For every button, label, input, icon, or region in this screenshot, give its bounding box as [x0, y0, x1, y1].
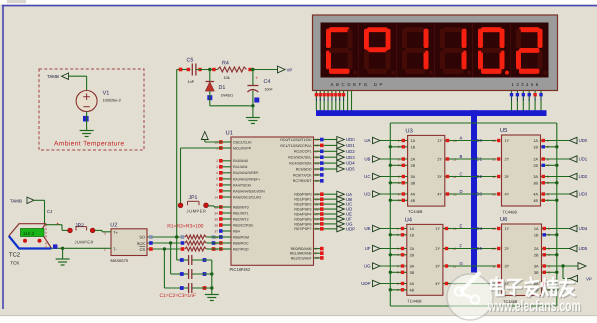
svg-text:2A: 2A — [533, 158, 538, 162]
svg-text:RD1/PSP1: RD1/PSP1 — [294, 198, 311, 202]
node R3 — [163, 247, 166, 250]
svg-text:RE0/RD/AN5: RE0/RD/AN5 — [291, 247, 312, 251]
svg-text:U5: U5 — [500, 128, 507, 134]
wire top link — [390, 122, 557, 124]
svg-text:1B: 1B — [411, 145, 416, 149]
svg-text:V1: V1 — [103, 91, 110, 97]
wire D1 bottom — [210, 91, 253, 106]
op IC U5 body — [500, 128, 541, 214]
svg-text:B: B — [460, 154, 463, 159]
svg-text:UD0: UD0 — [579, 138, 588, 143]
svg-text:4: 4 — [397, 253, 399, 257]
jumper JP1 — [178, 195, 208, 213]
terminal arrow OSC1 — [201, 132, 208, 140]
svg-text:4A: 4A — [410, 282, 415, 286]
svg-text:UD1: UD1 — [579, 157, 588, 162]
svg-text:C1=C2=C3=1nF: C1=C2=C3=1nF — [160, 293, 197, 299]
node R1/C5 — [175, 235, 178, 238]
svg-text:5: 5 — [397, 264, 399, 268]
svg-text:18: 18 — [315, 156, 319, 160]
node C4 ground — [251, 104, 254, 107]
wire to ground (C4) — [252, 106, 254, 117]
svg-text:C: C — [460, 171, 463, 176]
svg-text:23: 23 — [315, 161, 319, 165]
svg-text:RD0/PSP0: RD0/PSP0 — [294, 193, 311, 197]
svg-text:3B: 3B — [534, 271, 539, 275]
svg-text:UD1: UD1 — [346, 143, 355, 148]
U1 terminals UD0-UD5 — [324, 137, 356, 173]
svg-text:U2: U2 — [110, 222, 117, 228]
label Ambient Temperature — [54, 140, 124, 147]
thermocouple TC2 body — [9, 224, 52, 249]
svg-text:RB7/PGD: RB7/PGD — [233, 247, 249, 251]
svg-text:16: 16 — [315, 144, 319, 148]
wire TC2-JP2 — [46, 221, 68, 230]
ground (TC2) — [56, 259, 70, 265]
wire D1 vertical — [209, 70, 211, 82]
svg-text:R1=R2=R3=100: R1=R2=R3=100 — [167, 223, 203, 229]
svg-text:37: 37 — [214, 229, 218, 233]
svg-text:VP: VP — [287, 68, 293, 73]
svg-text:27: 27 — [315, 212, 319, 216]
svg-text:34: 34 — [214, 211, 218, 215]
U3 pins — [380, 139, 457, 203]
U5 pins — [492, 139, 570, 203]
label C1=C2=C3 — [160, 293, 197, 299]
wire MCLR-JP1 — [181, 148, 223, 203]
wire V1 top — [86, 76, 88, 90]
svg-text:3A: 3A — [534, 265, 539, 269]
svg-text:19: 19 — [315, 193, 319, 197]
wire TC2-U2.T- — [52, 244, 112, 248]
svg-text:14: 14 — [214, 195, 218, 199]
svg-text:10nF: 10nF — [265, 88, 274, 92]
svg-text:3Y: 3Y — [505, 265, 510, 269]
svg-text:110.2: 110.2 — [23, 231, 35, 236]
svg-text:2A: 2A — [534, 247, 539, 251]
TC2 buttons — [23, 239, 42, 243]
svg-text:1: 1 — [398, 139, 400, 143]
svg-text:T+: T+ — [113, 230, 118, 235]
node R4-C4 — [251, 68, 254, 71]
wire JP1-RB0 — [209, 206, 223, 207]
svg-text:TC4468: TC4468 — [407, 298, 422, 303]
wire C5-R4 — [196, 69, 218, 71]
svg-text:1Y: 1Y — [505, 227, 510, 231]
wire to ground (T-) — [62, 248, 64, 258]
voltage source V1 — [76, 91, 121, 112]
U1 terminals UA-UDP — [324, 191, 356, 232]
wire B-enable vertical (left) — [389, 123, 391, 306]
terminals UD4-UD5 (U6 outputs) — [570, 225, 588, 251]
svg-text:RE1/WR/AN6: RE1/WR/AN6 — [290, 252, 312, 256]
svg-text:28: 28 — [315, 217, 319, 221]
wire OSC1 — [205, 140, 222, 142]
wire caps to ground — [211, 260, 213, 294]
svg-text:10: 10 — [315, 256, 319, 260]
svg-text:2Y: 2Y — [505, 158, 510, 162]
wire R4-VP — [250, 69, 278, 71]
svg-text:3: 3 — [216, 165, 218, 169]
svg-text:5: 5 — [398, 175, 400, 179]
svg-text:Ambient Temperature: Ambient Temperature — [54, 140, 124, 147]
svg-text:3: 3 — [548, 247, 550, 251]
svg-text:4B: 4B — [411, 199, 416, 203]
svg-text:UC: UC — [364, 174, 370, 179]
svg-text:UDP: UDP — [361, 281, 370, 286]
svg-text:F: F — [460, 243, 463, 248]
svg-text:35: 35 — [214, 217, 218, 221]
svg-text:3B: 3B — [410, 271, 415, 275]
svg-text:C4: C4 — [264, 79, 271, 85]
svg-text:2A: 2A — [411, 158, 416, 162]
svg-text:9: 9 — [547, 199, 549, 203]
svg-text:RD5/PSP5: RD5/PSP5 — [294, 217, 311, 221]
U1 right pins — [280, 138, 323, 261]
svg-text:8: 8 — [398, 192, 400, 196]
svg-text:15: 15 — [315, 138, 319, 142]
svg-text:2Y: 2Y — [437, 158, 442, 162]
svg-text:RC5/SDO: RC5/SDO — [296, 167, 312, 171]
U6 pins — [492, 227, 578, 292]
op IC U3 body — [405, 128, 444, 215]
svg-text:11: 11 — [492, 264, 496, 268]
svg-text:2B: 2B — [533, 164, 538, 168]
svg-text:3Y: 3Y — [505, 175, 510, 179]
svg-text:4B: 4B — [410, 288, 415, 292]
svg-text:3B: 3B — [411, 181, 416, 185]
svg-text:TC4468: TC4468 — [503, 209, 518, 214]
svg-text:29: 29 — [315, 222, 319, 226]
svg-text:26: 26 — [315, 179, 319, 183]
terminal TAMB (V1) — [47, 73, 87, 79]
svg-text:12: 12 — [492, 247, 496, 251]
svg-text:TAMB: TAMB — [47, 74, 59, 79]
marker square D1 — [207, 95, 212, 100]
svg-text:RC0/T1OSO/T1CKI: RC0/T1OSO/T1CKI — [280, 138, 311, 142]
terminals UA-UD (U3 inputs) — [364, 137, 380, 197]
svg-text:24: 24 — [315, 167, 319, 171]
svg-text:10: 10 — [492, 192, 496, 196]
svg-text:D5: D5 — [477, 246, 483, 251]
svg-text:2B: 2B — [410, 253, 415, 257]
svg-text:JP1: JP1 — [189, 195, 198, 201]
dashed box Ambient Temperature — [39, 69, 144, 150]
svg-text:D: D — [460, 189, 463, 194]
svg-text:3: 3 — [397, 247, 399, 251]
svg-text:3B: 3B — [533, 181, 538, 185]
svg-text:5: 5 — [547, 175, 549, 179]
svg-text:4B: 4B — [533, 199, 538, 203]
svg-text:22: 22 — [315, 207, 319, 211]
svg-text:D0: D0 — [477, 138, 483, 143]
capacitor C4 — [247, 70, 273, 106]
svg-text:3Y: 3Y — [435, 265, 440, 269]
svg-text:A: A — [460, 135, 463, 140]
capacitors C1 C2 C3 — [180, 255, 212, 293]
svg-text:3Y: 3Y — [437, 175, 442, 179]
terminals UD0-UD3 (U5 outputs) — [570, 137, 588, 197]
ground (C1-C3) — [205, 295, 219, 301]
svg-text:2: 2 — [547, 145, 549, 149]
svg-text:JUMPER: JUMPER — [75, 239, 94, 244]
svg-text:RA4/T0CKI: RA4/T0CKI — [233, 183, 251, 187]
svg-text:4Y: 4Y — [505, 282, 510, 286]
svg-text:RB0/INT0: RB0/INT0 — [233, 205, 249, 209]
label TC2 — [9, 252, 21, 266]
svg-text:D4: D4 — [477, 226, 483, 231]
svg-text:1N4001: 1N4001 — [221, 93, 234, 97]
svg-text:1A: 1A — [534, 227, 539, 231]
svg-text:2: 2 — [548, 233, 550, 237]
svg-text:RB4: RB4 — [233, 229, 240, 233]
svg-text:2A: 2A — [410, 247, 415, 251]
svg-text:PIC18F452: PIC18F452 — [230, 267, 251, 272]
svg-text:MAX6675: MAX6675 — [111, 258, 129, 263]
terminals UE-UDP (U4 inputs) — [361, 225, 380, 286]
svg-text:6: 6 — [548, 271, 550, 275]
svg-text:6: 6 — [397, 271, 399, 275]
svg-text:E: E — [460, 223, 463, 228]
svg-text:D2: D2 — [477, 174, 483, 179]
svg-text:9: 9 — [315, 252, 317, 256]
node R2 — [169, 241, 172, 244]
resistors R1 R2 R3 — [147, 235, 222, 251]
svg-text:UE: UE — [364, 226, 370, 231]
svg-text:UB: UB — [364, 157, 370, 162]
svg-text:3A: 3A — [410, 265, 415, 269]
watermark text 电子发烧友 — [491, 278, 576, 298]
svg-text:RA6/OSC2/CLKO: RA6/OSC2/CLKO — [233, 195, 261, 199]
svg-text:13: 13 — [492, 227, 496, 231]
svg-text:UDP: UDP — [346, 226, 355, 231]
svg-text:CJ: CJ — [47, 209, 52, 214]
svg-text:SCK: SCK — [137, 241, 146, 246]
svg-text:1: 1 — [547, 139, 549, 143]
svg-text:2: 2 — [216, 159, 218, 163]
ground (V1) — [80, 131, 94, 137]
svg-text:10k: 10k — [224, 76, 230, 80]
svg-text:UA: UA — [364, 138, 370, 143]
svg-text:UG: UG — [364, 264, 371, 269]
svg-text:UD5: UD5 — [346, 167, 355, 172]
svg-text:8: 8 — [397, 282, 399, 286]
svg-text:1B: 1B — [533, 145, 538, 149]
svg-text:U4: U4 — [405, 218, 413, 224]
svg-text:RD2/PSP2: RD2/PSP2 — [294, 203, 311, 207]
svg-text:U6: U6 — [500, 216, 507, 223]
svg-text:VP: VP — [586, 277, 592, 282]
svg-text:1A: 1A — [411, 139, 416, 143]
svg-text:UD2: UD2 — [346, 149, 355, 154]
display segment pins A-DP — [315, 91, 352, 111]
svg-text:13: 13 — [492, 139, 496, 143]
svg-text:1: 1 — [548, 227, 550, 231]
wires to C1-C3 — [164, 237, 186, 288]
svg-text:D1: D1 — [219, 85, 226, 91]
svg-text:U3: U3 — [405, 128, 412, 135]
node C2 join — [210, 272, 213, 275]
terminal VP (top) — [278, 66, 293, 73]
op IC U2 body — [110, 222, 147, 263]
svg-text:2Y: 2Y — [435, 247, 440, 251]
svg-text:4A: 4A — [411, 193, 416, 197]
svg-text:JP2: JP2 — [75, 223, 84, 229]
U1 left pins — [214, 140, 265, 251]
svg-text:2B: 2B — [411, 164, 416, 168]
svg-text:3: 3 — [547, 157, 549, 161]
svg-text:RB3/CCP2B: RB3/CCP2B — [233, 223, 253, 227]
svg-text:8: 8 — [315, 247, 317, 251]
node D1 top — [208, 68, 211, 71]
svg-text:1Y: 1Y — [435, 227, 440, 231]
terminal TAMB (TC2) — [10, 197, 45, 203]
wire C5 left / down to U2.SO node — [177, 68, 191, 237]
svg-text:20: 20 — [315, 198, 319, 202]
svg-text:6: 6 — [547, 181, 549, 185]
svg-text:RC3/SCK/SCL: RC3/SCK/SCL — [288, 156, 311, 160]
svg-text:3A: 3A — [411, 175, 416, 179]
svg-text:6: 6 — [216, 183, 218, 187]
svg-text:RA1/AN1: RA1/AN1 — [233, 165, 248, 169]
svg-text:4Y: 4Y — [505, 193, 510, 197]
svg-text:21: 21 — [315, 202, 319, 206]
wires segment nets A-G / digit nets D0-D5 — [452, 135, 497, 283]
svg-text:UD2: UD2 — [579, 174, 588, 179]
svg-text:1B: 1B — [534, 233, 539, 237]
svg-text:UD4: UD4 — [579, 226, 588, 231]
svg-text:1Y: 1Y — [437, 139, 442, 143]
svg-text:ABCDEFG DP: ABCDEFG DP — [331, 82, 386, 87]
TC2 LCD readout — [21, 229, 45, 237]
svg-text:R4: R4 — [222, 61, 229, 67]
svg-text:3: 3 — [398, 157, 400, 161]
svg-text:RD6/PSP6: RD6/PSP6 — [294, 222, 311, 226]
svg-text:1: 1 — [397, 227, 399, 231]
svg-text:RD4/PSP4: RD4/PSP4 — [294, 212, 311, 216]
wire VP branch — [563, 266, 570, 279]
U2 pin numbers — [104, 231, 106, 251]
label R1=R2=R3 — [167, 223, 203, 229]
svg-text:100026e-3: 100026e-3 — [103, 99, 121, 103]
ground (C4/D1) — [246, 118, 260, 124]
svg-text:JUMPER: JUMPER — [187, 209, 207, 214]
svg-text:+: + — [255, 76, 258, 82]
svg-text:RC4/SDI/SDA: RC4/SDI/SDA — [289, 162, 312, 166]
watermark logo circle — [447, 274, 493, 321]
op IC U1 body — [226, 130, 314, 271]
svg-text:www.elecfans.com: www.elecfans.com — [487, 298, 581, 315]
svg-text:4Y: 4Y — [435, 282, 440, 286]
svg-text:RC2/CCP1: RC2/CCP1 — [294, 150, 312, 154]
svg-text:4: 4 — [216, 171, 218, 175]
svg-text:RB6/PGC: RB6/PGC — [233, 241, 249, 245]
resistor R4 — [212, 61, 252, 80]
node C3 join — [210, 286, 213, 289]
svg-text:11: 11 — [492, 175, 496, 179]
svg-text:RC7/RX/DT: RC7/RX/DT — [293, 179, 313, 183]
svg-text:UD3: UD3 — [346, 155, 355, 160]
svg-text:OSC1/CLKI: OSC1/CLKI — [233, 140, 252, 144]
svg-text:RB1/INT1: RB1/INT1 — [233, 211, 249, 215]
svg-text:30: 30 — [315, 227, 319, 231]
svg-text:2: 2 — [398, 145, 400, 149]
diode D1 — [206, 82, 234, 98]
marker square V1 — [83, 116, 89, 122]
svg-text:D3: D3 — [477, 192, 483, 197]
svg-text:17: 17 — [315, 150, 319, 154]
svg-text:2B: 2B — [534, 253, 539, 257]
jumper JP2 — [68, 223, 95, 245]
svg-text:RB2/INT2: RB2/INT2 — [233, 217, 249, 221]
svg-text:4: 4 — [398, 164, 400, 168]
svg-text:RA5/AN4/SS/LVDIN: RA5/AN4/SS/LVDIN — [233, 189, 265, 193]
svg-text:TAMB: TAMB — [10, 198, 22, 203]
svg-text:1Y: 1Y — [505, 139, 510, 143]
wire bottom link — [390, 305, 557, 307]
svg-text:8: 8 — [547, 192, 549, 196]
svg-text:RC6/TX/CK: RC6/TX/CK — [293, 173, 312, 177]
svg-text:RA0/AN0: RA0/AN0 — [233, 159, 248, 163]
svg-text:25: 25 — [315, 173, 319, 177]
node VP branch — [561, 264, 564, 267]
node T- ground — [61, 247, 64, 250]
svg-text:UD: UD — [364, 192, 370, 197]
svg-text:TCK: TCK — [10, 260, 20, 265]
svg-text:RC1/T1OSI/CCP2A: RC1/T1OSI/CCP2A — [280, 144, 312, 148]
svg-text:C5: C5 — [187, 58, 194, 64]
terminal VP (bottom right) — [570, 275, 592, 281]
wire CJ vertical — [45, 200, 53, 223]
svg-text:9: 9 — [398, 199, 400, 203]
svg-text:12: 12 — [492, 157, 496, 161]
watermark url www.elecfans.com — [487, 298, 582, 316]
7-segment display bezel — [313, 15, 558, 91]
svg-text:RA3/AN3/VREF+: RA3/AN3/VREF+ — [233, 177, 260, 181]
svg-text:RD3/PSP3: RD3/PSP3 — [294, 208, 311, 212]
wire B-enable vertical (right) — [556, 123, 558, 306]
svg-text:D1: D1 — [477, 157, 483, 162]
svg-text:UD4: UD4 — [346, 161, 355, 166]
svg-text:UD0: UD0 — [346, 137, 355, 142]
display cell dividers — [359, 23, 511, 78]
op IC U6 body — [500, 216, 542, 304]
wire JP2-U2.T+ — [95, 230, 111, 231]
display pin name strip — [331, 82, 541, 87]
svg-text:TC4468: TC4468 — [408, 209, 423, 214]
svg-text:1A: 1A — [533, 139, 538, 143]
svg-text:U1: U1 — [226, 130, 233, 136]
svg-text:123456: 123456 — [512, 82, 541, 87]
svg-text:TC2: TC2 — [9, 252, 21, 259]
svg-text:RD7/PSP7: RD7/PSP7 — [294, 227, 311, 231]
svg-text:4A: 4A — [533, 193, 538, 197]
svg-text:1nF: 1nF — [188, 80, 195, 84]
svg-text:3A: 3A — [533, 175, 538, 179]
svg-text:UD5: UD5 — [579, 246, 588, 251]
svg-text:1A: 1A — [410, 227, 415, 231]
svg-text:5: 5 — [216, 177, 218, 181]
bus wire (blue) — [316, 110, 547, 272]
terminal arrow (VDD, plain) — [578, 263, 586, 270]
display digits C°110.2 — [326, 27, 547, 74]
capacitor C5 — [187, 58, 202, 84]
svg-text:RE2/CS/AN7: RE2/CS/AN7 — [291, 256, 312, 260]
svg-text:MCLR/VPP: MCLR/VPP — [233, 146, 252, 150]
svg-text:RA2/AN2/VREF-: RA2/AN2/VREF- — [233, 171, 260, 175]
svg-text:2Y: 2Y — [505, 247, 510, 251]
svg-text:4Y: 4Y — [437, 193, 442, 197]
